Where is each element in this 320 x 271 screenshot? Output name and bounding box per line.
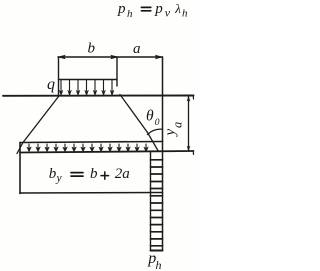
buried strip bottom line / right extension line (20, 151, 194, 153)
svg-text:λ: λ (174, 1, 181, 16)
arrowhead at divider (tip right) (111, 55, 118, 59)
strip arrows (27, 144, 148, 152)
svg-text:h: h (182, 7, 188, 19)
extension line left edge of load (58, 57, 60, 96)
b_y box bottom (20, 192, 163, 195)
pressure diagram ladder left rail (150, 153, 152, 251)
svg-text:a: a (133, 41, 141, 57)
arrowhead left end (58, 55, 65, 59)
svg-text:b: b (88, 40, 96, 56)
arrowhead right end (156, 55, 163, 59)
angle arc theta0 (147, 129, 162, 134)
load arrows q (59, 80, 114, 96)
b_y box left edge (19, 143, 21, 194)
svg-text:0: 0 (155, 118, 160, 128)
svg-text:h: h (127, 8, 133, 20)
svg-text:p: p (154, 1, 163, 17)
ground line (3, 95, 194, 97)
svg-text:y: y (163, 129, 179, 138)
ladder rungs (151, 160, 163, 251)
svg-text:θ: θ (146, 108, 154, 125)
y_a arrow up (187, 97, 190, 102)
formula p_h = p_v lambda_h (117, 1, 188, 20)
left spread slope line (17, 97, 59, 154)
bottom extension right tick (192, 151, 194, 155)
svg-text:v: v (165, 5, 171, 19)
svg-text:h: h (156, 258, 162, 271)
load strip line q (59, 79, 118, 81)
divider tick (116, 57, 118, 86)
svg-text:y: y (56, 173, 63, 185)
ground line right tick (192, 96, 194, 100)
dimension line b+a (58, 56, 163, 58)
right spread slope line (120, 95, 159, 152)
wall vertical line (162, 57, 164, 251)
y_a arrow down (187, 146, 190, 151)
svg-text:b: b (90, 166, 98, 182)
buried strip top line (20, 142, 163, 143)
svg-text:2a: 2a (115, 166, 130, 182)
svg-text:q: q (47, 76, 55, 93)
y_a dimension line (188, 97, 190, 151)
svg-text:a: a (171, 122, 185, 128)
svg-text:p: p (117, 1, 126, 17)
